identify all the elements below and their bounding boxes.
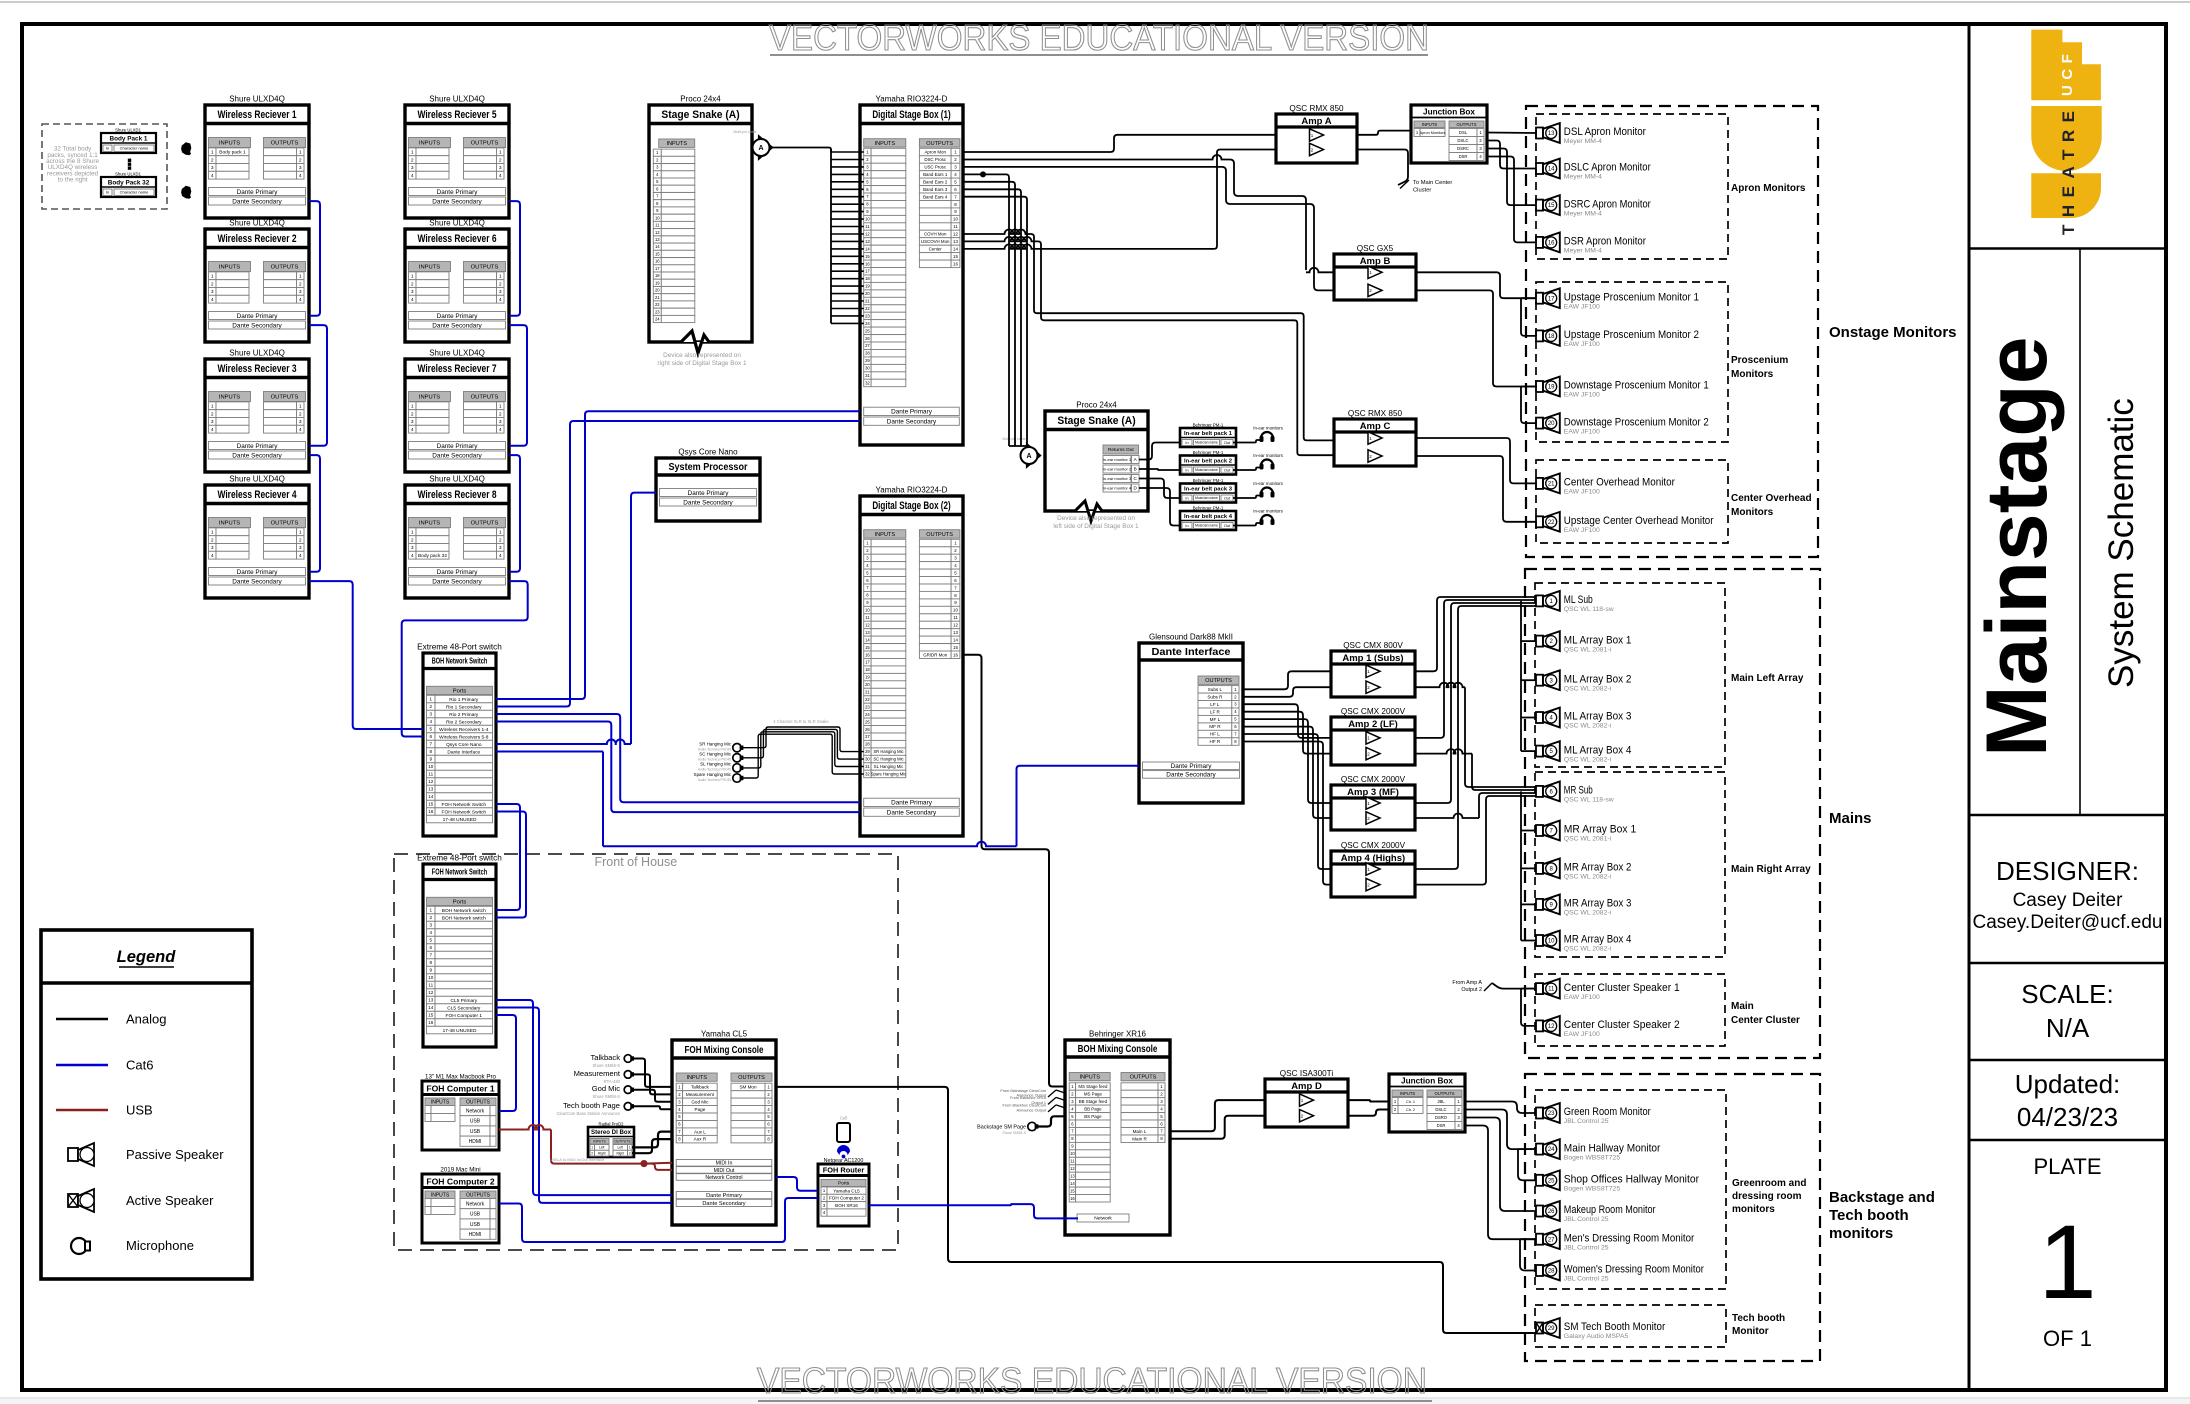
svg-text:dressing room: dressing room	[1732, 1191, 1802, 1202]
svg-text:Body Pack 32: Body Pack 32	[108, 180, 150, 187]
wire: Measurement to console input 2	[632, 1074, 672, 1094]
svg-text:Wireless Reciever 1: Wireless Reciever 1	[217, 109, 296, 121]
svg-text:Right: Right	[616, 1151, 624, 1155]
svg-text:Dante Secondary: Dante Secondary	[702, 1201, 745, 1207]
svg-text:Tech booth: Tech booth	[1829, 1207, 1909, 1224]
svg-text:3: 3	[499, 545, 502, 551]
svg-text:Subs L: Subs L	[1208, 687, 1223, 692]
svg-text:Musician name: Musician name	[1195, 468, 1218, 472]
svg-text:Dante Primary: Dante Primary	[237, 443, 279, 450]
wire: DI box outputs to console aux in	[632, 1132, 672, 1148]
svg-text:Dante Primary: Dante Primary	[1171, 763, 1213, 770]
svg-text:04/23/23: 04/23/23	[2017, 1102, 2118, 1132]
svg-text:3: 3	[299, 165, 302, 171]
svg-text:FOH Mixing Console: FOH Mixing Console	[684, 1044, 763, 1056]
svg-text:In-ear monitor 3: In-ear monitor 3	[1103, 476, 1132, 481]
wire: DSB2 out16 GR/DR mon to BOH console input 1	[963, 655, 1065, 1087]
svg-text:Meyer MM-4: Meyer MM-4	[1564, 210, 1602, 217]
svg-text:4: 4	[499, 427, 502, 433]
svg-text:QSC WL 2082-i: QSC WL 2082-i	[1564, 723, 1612, 730]
svg-text:DSC Prosc: DSC Prosc	[924, 157, 947, 162]
svg-text:DSLC: DSLC	[1435, 1107, 1446, 1112]
svg-text:2: 2	[299, 281, 302, 287]
svg-text:Dante Primary: Dante Primary	[688, 490, 730, 497]
svg-text:25: 25	[865, 719, 870, 724]
svg-text:13: 13	[865, 630, 870, 635]
svg-text:God Mic: God Mic	[592, 1084, 620, 1093]
backstage outer dashed group	[1525, 1074, 1820, 1361]
svg-text:Dante Secondary: Dante Secondary	[232, 322, 282, 329]
svg-text:OUTPUTS: OUTPUTS	[1205, 678, 1232, 684]
speaker 10: MR Array Box 4	[1536, 935, 1543, 946]
speaker 12: Center Cluster Speaker 2	[1536, 1020, 1543, 1031]
svg-text:15: 15	[1070, 1188, 1075, 1193]
svg-text:1: 1	[299, 530, 302, 536]
svg-text:Multi-pin cable: Multi-pin cable	[733, 130, 756, 134]
svg-text:Dante Primary: Dante Primary	[437, 313, 479, 320]
svg-text:LF R: LF R	[1210, 709, 1221, 714]
svg-text:Main R: Main R	[1132, 1136, 1147, 1141]
svg-text:Ch. 1: Ch. 1	[1406, 1100, 1415, 1104]
svg-text:Returns Out: Returns Out	[1108, 447, 1135, 453]
svg-text:4: 4	[299, 173, 302, 179]
svg-text:Glensound Dark88 MkII: Glensound Dark88 MkII	[1149, 633, 1233, 642]
svg-text:DSR: DSR	[1459, 154, 1468, 159]
svg-text:Talkback: Talkback	[590, 1053, 620, 1062]
wire: backstage SM page to BOH input 5	[1037, 1116, 1065, 1126]
svg-text:QSC CMX 2000V: QSC CMX 2000V	[1341, 707, 1406, 716]
wire: amp3 ch1 to ML bundle	[1415, 603, 1536, 803]
speaker 28: Women's Dressing Room Monitor	[1536, 1265, 1543, 1276]
svg-text:Shure ULXD4Q: Shure ULXD4Q	[429, 95, 485, 104]
svg-text:INPUTS: INPUTS	[419, 265, 440, 271]
speaker 6: MR Sub	[1536, 786, 1543, 797]
svg-text:Meyer MM-4: Meyer MM-4	[1564, 138, 1602, 145]
svg-text:INPUTS: INPUTS	[419, 395, 440, 401]
svg-text:To Main Center: To Main Center	[1413, 180, 1452, 186]
wire: snake A left to DSB1 input fan	[772, 148, 831, 153]
svg-text:18: 18	[865, 276, 870, 281]
svg-text:Wireless Reciever 5: Wireless Reciever 5	[417, 109, 496, 121]
speaker 15: DSRC Apron Monitor	[1536, 200, 1543, 211]
svg-text:Device also represented on: Device also represented on	[1057, 515, 1135, 522]
svg-text:In-ear belt pack 3: In-ear belt pack 3	[1184, 487, 1232, 493]
svg-text:HF R: HF R	[1210, 739, 1221, 744]
svg-text:BOH Network switch: BOH Network switch	[442, 915, 486, 921]
svg-text:From Mainstage ClearCom: From Mainstage ClearCom	[1000, 1089, 1046, 1093]
svg-text:Cat6: Cat6	[126, 1058, 153, 1073]
svg-text:27: 27	[865, 734, 870, 739]
speaker 14: DSLC Apron Monitor	[1536, 163, 1543, 174]
svg-text:2: 2	[411, 411, 414, 417]
svg-text:USB: USB	[470, 1222, 481, 1228]
wireless mic glyph lower	[181, 186, 191, 199]
svg-text:1: 1	[499, 150, 502, 156]
svg-text:Dante Interface: Dante Interface	[1151, 647, 1231, 658]
svg-text:Active Speaker: Active Speaker	[126, 1193, 214, 1208]
svg-text:1: 1	[211, 404, 214, 410]
svg-text:FOH Computer 2: FOH Computer 2	[426, 1176, 494, 1186]
legend box	[41, 930, 252, 1279]
speaker 7: MR Array Box 1	[1536, 825, 1543, 836]
svg-text:11: 11	[428, 983, 433, 988]
svg-text:15: 15	[865, 645, 870, 650]
svg-text:OUTPUTS: OUTPUTS	[471, 395, 499, 401]
svg-text:9: 9	[430, 757, 433, 762]
svg-text:3: 3	[430, 923, 433, 928]
svg-text:Main L: Main L	[1133, 1129, 1147, 1134]
svg-text:Wireless Receivers 5-8: Wireless Receivers 5-8	[439, 734, 489, 740]
svg-text:2: 2	[299, 537, 302, 543]
svg-text:Shure ULXD4Q: Shure ULXD4Q	[429, 349, 485, 358]
svg-text:13: 13	[1548, 131, 1555, 137]
svg-text:Proscenium: Proscenium	[1731, 355, 1788, 366]
svg-text:1: 1	[430, 697, 433, 702]
svg-text:12: 12	[428, 779, 434, 784]
svg-text:4: 4	[299, 553, 302, 559]
svg-text:8: 8	[430, 749, 433, 754]
svg-text:2: 2	[499, 411, 502, 417]
speaker 1: ML Sub	[1536, 595, 1543, 606]
wire: dante interface outputs to amps 1-4	[1243, 671, 1331, 689]
cat6: FOH port13 to CL5 dante primary	[496, 1000, 672, 1195]
svg-text:2: 2	[499, 537, 502, 543]
svg-text:ML Array Box 2: ML Array Box 2	[1564, 673, 1632, 685]
svg-text:CL5 Primary: CL5 Primary	[450, 998, 477, 1004]
svg-text:1: 1	[211, 274, 214, 280]
svg-text:14: 14	[428, 794, 434, 799]
svg-text:4: 4	[211, 427, 214, 433]
svg-text:1: 1	[411, 274, 414, 280]
cat6: BOH port8 to dante interface	[496, 751, 603, 753]
speaker 16: DSR Apron Monitor	[1536, 237, 1543, 248]
svg-text:In-ear belt pack 2: In-ear belt pack 2	[1184, 459, 1232, 465]
svg-text:Bogen WBS8T725: Bogen WBS8T725	[1564, 1186, 1621, 1193]
svg-text:1: 1	[499, 530, 502, 536]
svg-text:4: 4	[430, 930, 433, 935]
svg-text:Shure SM58-S: Shure SM58-S	[593, 1063, 621, 1068]
cat6: BOH port1 to DSB1 dante primary	[496, 411, 860, 699]
svg-text:Aux R: Aux R	[694, 1137, 707, 1142]
svg-text:Tech booth: Tech booth	[1732, 1313, 1785, 1324]
svg-text:BS Page: BS Page	[1084, 1114, 1102, 1119]
svg-text:1: 1	[411, 404, 414, 410]
wire: God Mic to console input 3	[632, 1090, 672, 1102]
svg-text:Shure ULXD4Q: Shure ULXD4Q	[229, 95, 285, 104]
svg-text:Shure ULXD4Q: Shure ULXD4Q	[229, 475, 285, 484]
wire: amp A out1 to junction box	[1357, 131, 1411, 135]
svg-text:right side of Digital Stage Bo: right side of Digital Stage Box 1	[657, 360, 747, 367]
svg-text:4: 4	[299, 427, 302, 433]
svg-text:DSL: DSL	[1459, 130, 1468, 135]
wireless mic glyph upper	[181, 142, 191, 155]
stage snake A left break symbol	[681, 331, 709, 353]
svg-text:In-ear monitors: In-ear monitors	[1253, 509, 1283, 514]
wire: BOH main L to amp D ch1	[1170, 1100, 1265, 1131]
front of house dashed boundary	[394, 854, 898, 1250]
tech booth dashed group	[1535, 1305, 1726, 1347]
svg-text:Apron Monitors: Apron Monitors	[1420, 131, 1446, 135]
svg-text:4: 4	[411, 427, 414, 433]
svg-text:1: 1	[430, 908, 433, 913]
svg-text:Shure ULXD4Q: Shure ULXD4Q	[429, 219, 485, 228]
svg-text:2: 2	[211, 537, 214, 543]
wire: junction outputs to apron speakers	[1487, 132, 1536, 135]
svg-text:16: 16	[953, 261, 958, 266]
svg-text:1: 1	[411, 150, 414, 156]
stage snake A right break symbol	[1075, 501, 1102, 521]
svg-text:Amp 2 (LF): Amp 2 (LF)	[1348, 719, 1398, 730]
svg-text:BOH Network switch: BOH Network switch	[442, 908, 486, 914]
svg-text:SL Hanging Mic: SL Hanging Mic	[874, 764, 903, 769]
svg-text:SR Hanging Mic: SR Hanging Mic	[699, 742, 732, 747]
svg-text:5: 5	[430, 727, 433, 732]
svg-text:Legend: Legend	[117, 948, 177, 966]
svg-text:10: 10	[953, 608, 958, 613]
svg-text:Downstage Proscenium Monitor 2: Downstage Proscenium Monitor 2	[1564, 416, 1709, 428]
svg-text:Out: Out	[1224, 524, 1231, 528]
svg-text:QSC WL 118-sw: QSC WL 118-sw	[1564, 606, 1614, 613]
svg-text:15: 15	[953, 254, 958, 259]
svg-text:Page: Page	[695, 1107, 706, 1112]
svg-text:22: 22	[655, 302, 660, 307]
speaker 22: Upstage Center Overhead Monitor	[1536, 516, 1543, 527]
svg-text:Qsys Core Nano: Qsys Core Nano	[446, 742, 482, 748]
svg-text:MIDI Out: MIDI Out	[714, 1168, 735, 1174]
svg-text:EAW JF100: EAW JF100	[1564, 341, 1600, 348]
legend microphone icon	[71, 1238, 87, 1254]
wire: amp C out2 to upstage center overhead monitor	[1416, 456, 1536, 522]
svg-text:Amp B: Amp B	[1360, 256, 1391, 267]
speaker 17: Upstage Proscenium Monitor 1	[1536, 293, 1543, 304]
svg-text:Aux L: Aux L	[694, 1129, 706, 1134]
svg-text:3: 3	[211, 419, 214, 425]
wire: amp2 ch2 to MR bundle	[1415, 749, 1472, 754]
svg-text:Dante Secondary: Dante Secondary	[432, 322, 482, 329]
svg-text:3: 3	[411, 419, 414, 425]
svg-text:BB Page: BB Page	[1084, 1107, 1102, 1112]
svg-text:Shure ULXD1: Shure ULXD1	[115, 128, 142, 133]
cat6: router port3 to BOH console network	[869, 1204, 1078, 1218]
svg-text:31: 31	[865, 373, 870, 378]
svg-text:3: 3	[211, 165, 214, 171]
svg-text:4: 4	[499, 173, 502, 179]
svg-text:12: 12	[953, 232, 958, 237]
svg-text:10: 10	[1548, 939, 1555, 945]
svg-text:USB: USB	[470, 1119, 481, 1125]
svg-text:Cluster: Cluster	[1413, 188, 1431, 194]
svg-text:ML Array Box 1: ML Array Box 1	[1564, 634, 1632, 646]
wire: snake returns to belt packs	[1139, 443, 1180, 460]
svg-text:DSLC Apron Monitor: DSLC Apron Monitor	[1564, 162, 1651, 174]
svg-text:MR Array Box 3: MR Array Box 3	[1564, 898, 1632, 910]
svg-text:Multi-pin cable: Multi-pin cable	[1002, 437, 1025, 441]
svg-text:In-ear monitors: In-ear monitors	[1253, 453, 1283, 458]
svg-text:MF R: MF R	[1209, 724, 1221, 729]
svg-text:MS Stage feed: MS Stage feed	[1078, 1084, 1108, 1089]
svg-text:OUTPUTS: OUTPUTS	[1130, 1075, 1157, 1081]
svg-text:Amp 1 (Subs): Amp 1 (Subs)	[1342, 653, 1403, 664]
svg-text:Rio 1 Primary: Rio 1 Primary	[449, 697, 479, 703]
svg-text:21: 21	[655, 295, 660, 300]
svg-text:Bogen WBS8T725: Bogen WBS8T725	[1564, 1154, 1621, 1161]
svg-text:4: 4	[499, 553, 502, 559]
svg-text:Backstage and: Backstage and	[1829, 1189, 1935, 1206]
svg-text:1: 1	[211, 530, 214, 536]
svg-text:Casey Deiter: Casey Deiter	[2013, 890, 2123, 911]
svg-text:Greenroom and: Greenroom and	[1732, 1178, 1806, 1189]
svg-text:Yamaha RIO3224-D: Yamaha RIO3224-D	[876, 486, 948, 495]
speaker 13: DSL Apron Monitor	[1536, 128, 1543, 139]
svg-text:FOH Network Switch: FOH Network Switch	[432, 868, 487, 877]
svg-text:13: 13	[953, 239, 958, 244]
speaker 2: ML Array Box 1	[1536, 636, 1543, 647]
svg-text:left side of Digital Stage Box: left side of Digital Stage Box 1	[1053, 523, 1139, 530]
svg-text:6: 6	[430, 945, 433, 950]
svg-text:4: 4	[299, 297, 302, 303]
svg-text:16: 16	[1070, 1196, 1075, 1201]
svg-text:4: 4	[211, 297, 214, 303]
body packs annotation dashed box	[42, 124, 167, 209]
svg-text:1: 1	[499, 274, 502, 280]
svg-text:2: 2	[499, 281, 502, 287]
svg-text:Musician name: Musician name	[1195, 496, 1218, 500]
svg-text:1: 1	[499, 404, 502, 410]
svg-text:MR Array Box 2: MR Array Box 2	[1564, 862, 1632, 874]
svg-text:10: 10	[1070, 1151, 1075, 1156]
apron monitors dashed group	[1536, 114, 1728, 259]
svg-text:10: 10	[428, 764, 434, 769]
wire: DSB1 out13 to amp C ch2	[963, 237, 1033, 242]
svg-text:System Schematic: System Schematic	[2102, 398, 2141, 688]
svg-text:QSC WL 118-sw: QSC WL 118-sw	[1564, 797, 1614, 804]
svg-text:JBL Control 25: JBL Control 25	[1564, 1216, 1609, 1223]
svg-text:OUTPUTS: OUTPUTS	[471, 141, 499, 147]
svg-text:16: 16	[953, 652, 958, 657]
svg-text:ML Array Box 3: ML Array Box 3	[1564, 711, 1632, 723]
svg-text:Dante Primary: Dante Primary	[237, 569, 279, 576]
svg-text:A: A	[1026, 453, 1031, 460]
legend analog sample	[56, 1018, 108, 1021]
wire: amp1 ch2 to MR sub bundle	[1415, 683, 1465, 687]
svg-text:Output 2: Output 2	[1461, 987, 1482, 993]
svg-text:Stage Snake (A): Stage Snake (A)	[661, 109, 740, 121]
svg-text:Shure ULXD4Q: Shure ULXD4Q	[429, 475, 485, 484]
wire: center cluster feed	[1492, 983, 1536, 989]
mains outer dashed group	[1525, 569, 1820, 1058]
svg-text:16: 16	[655, 259, 660, 264]
svg-text:Yamaha CL5: Yamaha CL5	[833, 1188, 860, 1193]
svg-text:HDMI: HDMI	[469, 1232, 482, 1238]
svg-text:Onstage Monitors: Onstage Monitors	[1829, 324, 1957, 341]
svg-text:22: 22	[1548, 520, 1555, 526]
svg-text:Dante Primary: Dante Primary	[437, 443, 479, 450]
svg-text:MR Sub: MR Sub	[1564, 785, 1593, 797]
svg-text:2: 2	[430, 704, 433, 709]
svg-text:4: 4	[499, 297, 502, 303]
proscenium monitors dashed group	[1536, 282, 1728, 442]
svg-text:DESIGNER:: DESIGNER:	[1996, 856, 2139, 886]
svg-text:10: 10	[655, 215, 660, 220]
svg-text:Musician name: Musician name	[1195, 524, 1218, 528]
svg-text:Apron Mon: Apron Mon	[924, 150, 946, 155]
wire: amp4 ch2 to MR bundle	[1415, 796, 1536, 885]
svg-text:1: 1	[2038, 1204, 2096, 1321]
speaker 23: Green Room Monitor	[1536, 1108, 1543, 1119]
svg-text:4: 4	[411, 553, 414, 559]
svg-text:2: 2	[411, 281, 414, 287]
speaker 29: SM Tech Booth Monitor	[1536, 1323, 1543, 1334]
svg-text:QSC RMX 850: QSC RMX 850	[1348, 409, 1403, 418]
svg-text:24: 24	[865, 712, 870, 717]
svg-text:Casey.Deiter@ucf.edu: Casey.Deiter@ucf.edu	[1972, 912, 2162, 933]
svg-text:In-ear monitor 2: In-ear monitor 2	[1103, 466, 1132, 471]
svg-text:Dante Secondary: Dante Secondary	[232, 452, 282, 459]
svg-text:System Processor: System Processor	[668, 462, 747, 473]
ellipsis between body packs	[128, 159, 131, 162]
UCF theatre logo gold shapes	[2031, 30, 2101, 101]
svg-text:11: 11	[1070, 1159, 1075, 1164]
svg-text:OUTPUTS: OUTPUTS	[471, 265, 499, 271]
cat6: BOH port7 to system processor	[496, 740, 631, 745]
svg-text:Body pack 32: Body pack 32	[418, 553, 447, 559]
svg-text:15: 15	[865, 254, 870, 259]
svg-text:3: 3	[411, 545, 414, 551]
stage snake A right returns table	[1103, 445, 1139, 454]
svg-text:2: 2	[299, 157, 302, 163]
svg-text:2: 2	[591, 1151, 593, 1155]
svg-text:3: 3	[211, 289, 214, 295]
svg-text:24: 24	[655, 317, 660, 322]
svg-text:B: B	[1134, 467, 1137, 472]
cat6: WR1 chain to WR2	[309, 201, 320, 316]
speaker 26: Makeup Room Monitor	[1536, 1206, 1543, 1217]
svg-text:Dante Interface: Dante Interface	[447, 749, 480, 755]
svg-text:DSR Apron Monitor: DSR Apron Monitor	[1564, 236, 1646, 248]
svg-text:INPUTS: INPUTS	[666, 141, 687, 147]
cat6: FOH port14 to CL5 dante secondary	[496, 1008, 672, 1203]
svg-text:Network: Network	[1094, 1216, 1112, 1222]
svg-text:27: 27	[1548, 1237, 1555, 1243]
svg-text:Galaxy Audio MSPA5: Galaxy Audio MSPA5	[1564, 1333, 1629, 1340]
svg-text:Measurement: Measurement	[686, 1092, 715, 1097]
svg-text:Dante Secondary: Dante Secondary	[1166, 772, 1216, 779]
svg-text:ML Array Box 4: ML Array Box 4	[1564, 744, 1632, 756]
svg-text:23: 23	[655, 309, 660, 314]
svg-text:Behringer XR16: Behringer XR16	[1089, 1030, 1146, 1039]
svg-text:4: 4	[430, 719, 433, 724]
wire: amp2 ch1 to ML bundle	[1415, 600, 1536, 738]
svg-text:24: 24	[865, 321, 870, 326]
svg-text:to the right: to the right	[58, 176, 88, 183]
wire: DSB1 out2 to amp B ch1	[963, 155, 1226, 159]
svg-text:OUTPUTS: OUTPUTS	[926, 532, 953, 538]
svg-text:USB: USB	[470, 1212, 481, 1218]
svg-text:Apron Monitors: Apron Monitors	[1731, 183, 1806, 194]
svg-text:INPUTS: INPUTS	[1422, 122, 1438, 127]
svg-text:Cell: Cell	[840, 1116, 847, 1121]
wire: amp B out1 to upstage proscenium monitors	[1416, 272, 1536, 298]
svg-text:13: 13	[428, 998, 434, 1003]
svg-text:28: 28	[865, 742, 870, 747]
svg-text:SCALE:: SCALE:	[2021, 979, 2114, 1009]
svg-text:EAW JF100: EAW JF100	[1564, 489, 1600, 496]
wire: amp1 ch1 to ML sub bundle	[1415, 597, 1536, 671]
wire: Tech booth Page to console input 4	[632, 1106, 672, 1109]
svg-text:Center Cluster Speaker 2: Center Cluster Speaker 2	[1564, 1019, 1680, 1031]
svg-text:QSC CMX 2000V: QSC CMX 2000V	[1341, 841, 1406, 850]
svg-text:DSRC Apron Monitor: DSRC Apron Monitor	[1564, 198, 1651, 210]
